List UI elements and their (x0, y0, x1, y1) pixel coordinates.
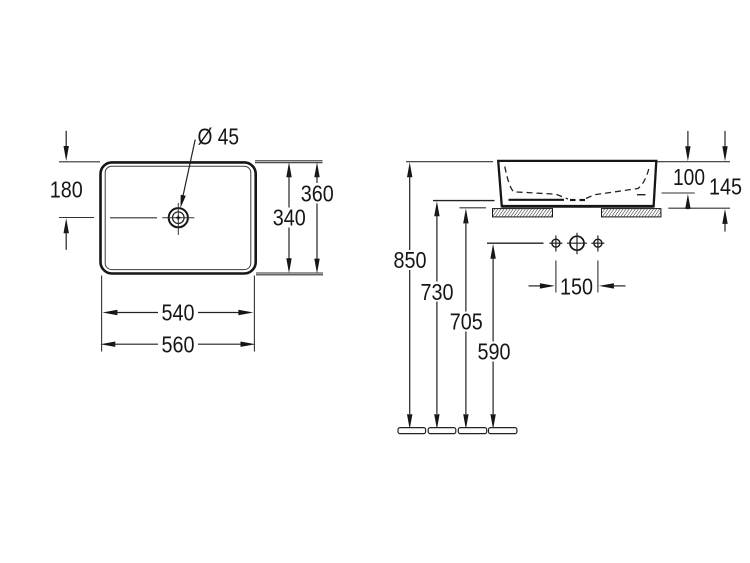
svg-text:590: 590 (478, 339, 511, 365)
extension line top left (59, 161, 100, 163)
drain hidden dashes (570, 199, 576, 201)
fixing hole small left (549, 236, 562, 252)
svg-text:360: 360 (301, 181, 334, 207)
floor tile 2 (428, 428, 456, 434)
dimension 360 lower shaft (316, 204, 318, 263)
svg-text:180: 180 (50, 177, 83, 203)
dimension 180 arrow up (63, 218, 68, 233)
inner bowl hidden contour right (586, 167, 649, 199)
dimension 340 upper shaft (288, 174, 290, 208)
dimension 100 lower shaft (687, 205, 689, 209)
tap hole crosshair vertical (177, 203, 179, 235)
dimension 730 arrow up (434, 201, 439, 216)
dimension 180 upper shaft (65, 131, 67, 150)
svg-text:145: 145 (709, 173, 742, 199)
mounting hatch right wedge (656, 209, 662, 217)
extension line bottom right vertical (253, 276, 255, 352)
svg-text:100: 100 (673, 164, 705, 190)
leader line for diameter 45 (182, 140, 195, 202)
dimension 150 arrow left (599, 283, 614, 288)
dimension 150 right shaft (611, 285, 625, 287)
extension line hole left (555, 261, 557, 293)
dimension 540 arrow right (238, 310, 253, 315)
dimension 590 arrow up (490, 244, 495, 259)
floor tile 4 (489, 428, 517, 434)
centerline through tap hole (110, 217, 157, 219)
dimension 590 arrow down (490, 414, 495, 429)
dimension 145 lower shaft (724, 221, 726, 232)
svg-text:730: 730 (421, 279, 454, 305)
fixing hole center large (567, 233, 587, 254)
dimension 850 arrow up (407, 162, 412, 177)
extension line top right outer (255, 160, 323, 162)
dimension 850 upper shaft (409, 174, 411, 250)
floor tile 3 (458, 428, 486, 434)
dimension 850 arrow down (407, 414, 412, 429)
svg-text:850: 850 (394, 247, 427, 273)
dimension 540 left shaft (114, 312, 158, 314)
dimension 150 arrow right (540, 283, 555, 288)
extension line 730 (433, 200, 495, 202)
extension line centerline left (59, 217, 94, 219)
extension line hole right (597, 261, 599, 293)
dimension 560 right shaft (198, 343, 243, 345)
dimension 145 upper shaft (724, 131, 726, 149)
dimension 360 upper shaft (316, 174, 318, 184)
tap hole center dashes (176, 217, 180, 219)
dimension 730 lower shaft (436, 302, 438, 415)
extension line 145 bottom (668, 207, 730, 209)
dimension 560 arrow left (100, 342, 115, 347)
dimension 730 upper shaft (436, 213, 438, 282)
extension line top right rim (255, 162, 323, 164)
dimension 360 arrow up (314, 162, 319, 177)
svg-text:Ø 45: Ø 45 (198, 124, 240, 150)
dimension 145 arrow down (722, 146, 727, 161)
tap hole outer circle (169, 208, 188, 227)
svg-text:340: 340 (273, 205, 306, 231)
mounting hatch right block (602, 209, 661, 217)
svg-text:705: 705 (450, 309, 483, 335)
dimension 180 lower shaft (65, 230, 67, 250)
dimension 360 arrow down (314, 259, 319, 274)
svg-text:150: 150 (560, 274, 593, 300)
extension line 590 (487, 242, 544, 244)
dimension 590 lower shaft (492, 362, 494, 415)
extension line top right side view (657, 161, 730, 163)
dimension 150 left shaft (529, 285, 543, 287)
leader arrowhead (181, 195, 186, 208)
mounting hatch left wedge (492, 209, 498, 217)
extension line 705 (460, 207, 487, 209)
dimension 145 arrow up (722, 209, 727, 224)
dimension 590 upper shaft (492, 256, 494, 342)
basin side view outline (498, 161, 656, 206)
dimension 705 arrow up (463, 208, 468, 223)
dimension 560 left shaft (113, 343, 159, 345)
extension line bottom right outer (256, 272, 323, 274)
basin top view inner rim line (105, 166, 251, 269)
basin side view bottom edge thick (502, 205, 654, 208)
extension line bottom right rim (256, 274, 323, 276)
svg-text:560: 560 (162, 331, 195, 357)
floor tile 1 (398, 428, 426, 434)
extension line 100 bottom (662, 192, 695, 194)
fixing hole small right (591, 236, 604, 252)
dimension 730 arrow down (434, 414, 439, 429)
dimension 100 arrow down (685, 146, 690, 161)
mounting hatch left block (493, 209, 553, 217)
solid shelf line bottom left inside (509, 199, 565, 201)
inner bowl hidden contour left (505, 167, 568, 200)
dimension 540 right shaft (198, 312, 242, 314)
dimension 340 arrow up (286, 162, 291, 177)
dimension 705 lower shaft (465, 332, 467, 415)
dimension 560 arrow right (241, 342, 256, 347)
dimension 705 upper shaft (465, 220, 467, 312)
dimension 850 lower shaft (409, 270, 411, 414)
hidden overflow line right (637, 194, 646, 196)
tap hole inner circle (173, 212, 185, 224)
dimension 100 upper shaft (687, 131, 689, 149)
basin top view outer outline (101, 162, 256, 273)
dimension 340 lower shaft (288, 228, 290, 262)
tap hole crosshair horizontal (162, 217, 194, 219)
dimension 180 arrow down (63, 146, 68, 161)
svg-text:540: 540 (162, 300, 195, 326)
dimension 100 arrow up (685, 194, 690, 209)
extension line bottom left vertical (101, 276, 103, 352)
dimension 540 arrow left (102, 310, 117, 315)
extension line 850 top (406, 161, 493, 163)
dimension 705 arrow down (463, 414, 468, 429)
dimension 340 arrow down (286, 258, 291, 273)
